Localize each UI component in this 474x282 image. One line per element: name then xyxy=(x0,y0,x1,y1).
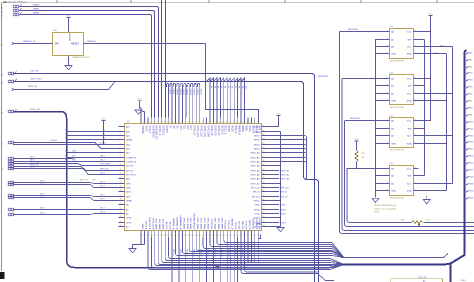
svg-text:6: 6 xyxy=(415,92,416,94)
svg-text:EE3: EE3 xyxy=(469,73,472,75)
labels on slash tap wires xyxy=(210,86,247,89)
svg-text:EE4: EE4 xyxy=(469,80,472,82)
EEPROM nets vertical and bottom-east lines xyxy=(340,32,474,234)
svg-text:NWR1: NWR1 xyxy=(241,126,243,133)
svg-text:TWD: TWD xyxy=(281,204,286,206)
svg-text:91: 91 xyxy=(263,151,265,153)
svg-text:SDA: SDA xyxy=(407,99,412,102)
U9 right pin stubs and numbers xyxy=(262,125,268,227)
svg-text:D11: D11 xyxy=(182,126,184,131)
svg-text:EE11: EE11 xyxy=(469,129,473,131)
svg-text:90: 90 xyxy=(250,122,252,124)
bus B slash taps to U9 top pins xyxy=(207,78,245,118)
svg-text:TDI_BX: TDI_BX xyxy=(234,222,236,230)
svg-text:62: 62 xyxy=(154,122,156,124)
wire net NWE1 xyxy=(19,11,155,118)
svg-text:63: 63 xyxy=(157,122,159,124)
svg-text:VCC: VCC xyxy=(407,78,412,80)
wire EEPROM1 to pin1 xyxy=(342,78,383,80)
node NRESET_IN port xyxy=(12,42,15,45)
svg-text:52: 52 xyxy=(240,235,242,237)
svg-text:NCS3: NCS3 xyxy=(231,126,233,133)
svg-text:GND: GND xyxy=(391,143,396,145)
svg-text:90: 90 xyxy=(263,156,265,158)
svg-text:EE5: EE5 xyxy=(469,87,472,89)
svg-text:GPIO_I2C: GPIO_I2C xyxy=(418,277,428,279)
svg-text:SDA: SDA xyxy=(407,189,412,192)
svg-text:GPIO_23: GPIO_23 xyxy=(220,249,222,257)
svg-text:GND: GND xyxy=(391,53,396,55)
svg-text:EE17: EE17 xyxy=(469,170,473,172)
svg-text:64: 64 xyxy=(160,122,162,124)
svg-text:UP_3: UP_3 xyxy=(100,182,105,184)
svg-text:SPI_CLK: SPI_CLK xyxy=(251,187,260,189)
node GPIO_1016 connector xyxy=(8,80,11,83)
svg-text:29: 29 xyxy=(160,235,162,237)
svg-text:GPIO_CS: GPIO_CS xyxy=(100,169,109,171)
op U10 box xyxy=(53,33,84,56)
svg-text:NRESET: NRESET xyxy=(87,41,97,43)
wire net NRAS xyxy=(19,15,152,118)
svg-text:GPIO_1016: GPIO_1016 xyxy=(30,79,42,81)
svg-text:79: 79 xyxy=(263,203,265,205)
svg-text:65: 65 xyxy=(164,122,166,124)
U9 bottom wires upper east band xyxy=(176,237,345,258)
node COM_B connector xyxy=(8,141,11,144)
svg-text:6C: 6C xyxy=(1,16,4,18)
svg-text:GPIO_A6: GPIO_A6 xyxy=(251,177,261,180)
svg-text:GPIO9: GPIO9 xyxy=(172,89,174,95)
svg-text:TST0_BX: TST0_BX xyxy=(224,220,226,230)
svg-text:U11: U11 xyxy=(390,26,395,28)
svg-text:NRD_A: NRD_A xyxy=(234,126,237,134)
svg-text:40: 40 xyxy=(198,235,200,237)
svg-text:VCC: VCC xyxy=(428,13,433,15)
svg-text:MPF_uB: MPF_uB xyxy=(80,180,88,182)
svg-text:9: 9 xyxy=(120,160,121,162)
svg-text:UP_1: UP_1 xyxy=(100,160,105,162)
svg-text:97: 97 xyxy=(263,125,265,127)
svg-text:GPIO_9: GPIO_9 xyxy=(172,249,174,256)
svg-text:3: 3 xyxy=(66,59,67,61)
svg-text:NOTES: EEPROMS only: NOTES: EEPROMS only xyxy=(374,205,396,207)
svg-text:BOOT0: BOOT0 xyxy=(126,165,134,167)
svg-text:UP_6: UP_6 xyxy=(40,196,45,198)
svg-text:TXD0: TXD0 xyxy=(254,213,260,215)
svg-text:1: 1 xyxy=(387,119,388,121)
resistor R10 xyxy=(355,151,359,162)
svg-text:UP_8: UP_8 xyxy=(40,213,45,215)
svg-text:27: 27 xyxy=(154,235,156,237)
svg-text:D5: D5 xyxy=(227,86,229,88)
svg-text:UP_8: UP_8 xyxy=(100,212,105,214)
svg-text:7: 7 xyxy=(120,151,121,153)
svg-text:EE19: EE19 xyxy=(469,184,473,186)
svg-text:GPIO1_C: GPIO1_C xyxy=(158,126,160,136)
svg-text:SPI_CLK: SPI_CLK xyxy=(281,187,290,189)
svg-text:GND: GND xyxy=(255,131,260,133)
svg-text:53: 53 xyxy=(243,235,245,237)
svg-text:GPFA: GPFA xyxy=(126,199,132,202)
svg-text:MR: MR xyxy=(55,43,59,46)
svg-text:TWCK: TWCK xyxy=(253,200,260,202)
svg-text:GPIO_25: GPIO_25 xyxy=(227,249,229,257)
svg-text:93: 93 xyxy=(263,143,265,145)
svg-text:3: 3 xyxy=(387,134,388,136)
wire bottom second east xyxy=(341,254,448,258)
svg-text:UP_6: UP_6 xyxy=(100,199,105,201)
svg-text:2: 2 xyxy=(387,38,388,40)
svg-text:GPIO_A5: GPIO_A5 xyxy=(251,173,261,176)
svg-text:COM_B: COM_B xyxy=(50,140,57,142)
svg-text:80: 80 xyxy=(216,122,218,124)
svg-text:SPI_DI: SPI_DI xyxy=(281,191,287,193)
U9 right GND chain xyxy=(267,132,281,227)
svg-text:CK7: CK7 xyxy=(72,156,76,158)
svg-text:AVCC: AVCC xyxy=(126,190,132,193)
svg-text:D7: D7 xyxy=(234,86,236,88)
svg-text:VCC: VCC xyxy=(276,113,281,115)
svg-text:54: 54 xyxy=(247,235,249,237)
svg-text:8: 8 xyxy=(415,119,416,121)
power VCC U9 top-left xyxy=(137,100,141,102)
svg-text:D2: D2 xyxy=(217,86,219,88)
op U12 box xyxy=(390,75,414,105)
svg-text:R16: R16 xyxy=(401,220,406,222)
svg-text:GPIO_C6: GPIO_C6 xyxy=(213,126,215,137)
svg-text:33: 33 xyxy=(174,235,176,237)
svg-text:U14: U14 xyxy=(390,163,395,165)
svg-text:23: 23 xyxy=(120,221,122,223)
power VCC R10 xyxy=(354,140,358,142)
svg-text:EE8: EE8 xyxy=(469,108,472,110)
node NWE1 connector xyxy=(13,9,16,12)
svg-text:74: 74 xyxy=(263,225,265,227)
wire NRESET out xyxy=(83,43,205,45)
svg-text:83: 83 xyxy=(263,186,265,188)
left connector group wires xyxy=(8,156,118,175)
svg-text:8: 8 xyxy=(415,77,416,79)
svg-text:EE1: EE1 xyxy=(469,60,472,62)
svg-text:NWE0: NWE0 xyxy=(33,5,40,7)
labels on top pin wires xyxy=(168,89,201,96)
svg-text:86: 86 xyxy=(236,122,238,124)
sheet corner mark xyxy=(0,272,5,279)
svg-text:SOM: SOM xyxy=(374,212,379,214)
svg-text:69: 69 xyxy=(178,122,180,124)
svg-text:GPB: GPB xyxy=(126,183,131,185)
svg-text:56: 56 xyxy=(254,235,256,237)
svg-text:GND: GND xyxy=(391,100,396,102)
svg-text:79: 79 xyxy=(212,122,214,124)
svg-text:GPIO_B6AX: GPIO_B6AX xyxy=(206,218,209,230)
svg-text:GPIO_A4: GPIO_A4 xyxy=(281,169,289,172)
svg-text:GPIO_B5AX: GPIO_B5AX xyxy=(203,218,206,230)
svg-text:2: 2 xyxy=(387,174,388,176)
svg-text:HDSAM_WSU10: HDSAM_WSU10 xyxy=(193,213,196,230)
svg-text:57: 57 xyxy=(257,235,259,237)
svg-text:D6: D6 xyxy=(231,86,233,88)
svg-text:UP_0: UP_0 xyxy=(100,156,105,158)
svg-text:EED1: EED1 xyxy=(254,139,260,141)
svg-text:UP_0: UP_0 xyxy=(30,157,35,159)
svg-text:GPIO2_C: GPIO2_C xyxy=(162,126,164,136)
wire WP chain xyxy=(419,40,426,176)
svg-text:TXD0: TXD0 xyxy=(281,213,286,215)
U14 pins xyxy=(383,167,418,193)
wire loop A xyxy=(13,74,315,282)
ground EEPROM tie xyxy=(372,198,379,202)
svg-text:6C: 6C xyxy=(1,169,4,171)
wire GPIO_26 merge xyxy=(14,82,115,90)
wire net NCAS vertical xyxy=(161,0,163,118)
svg-text:GPIO14: GPIO14 xyxy=(189,89,191,96)
svg-text:LANAMSEL_B: LANAMSEL_B xyxy=(179,216,182,230)
svg-text:DRAM: DRAM xyxy=(126,138,132,141)
svg-text:4: 4 xyxy=(120,138,121,140)
U12 pins xyxy=(383,77,418,103)
svg-text:12: 12 xyxy=(120,173,122,175)
U9 right pin names xyxy=(251,126,261,228)
svg-text:D12: D12 xyxy=(186,126,188,131)
svg-text:28: 28 xyxy=(157,235,159,237)
ground U9 top-left xyxy=(135,110,142,114)
op U9 box xyxy=(125,124,262,231)
svg-text:5: 5 xyxy=(415,52,416,54)
svg-text:70: 70 xyxy=(181,122,183,124)
svg-text:RESET: RESET xyxy=(71,43,80,46)
svg-text:GPIO16: GPIO16 xyxy=(196,89,198,96)
svg-text:87: 87 xyxy=(240,122,242,124)
svg-text:D10: D10 xyxy=(244,86,246,89)
svg-text:TCK_BX: TCK_BX xyxy=(244,221,246,230)
node XOSC connector xyxy=(8,110,11,113)
wires U9 right pins to collector bus xyxy=(267,136,307,181)
svg-text:DS1818: DS1818 xyxy=(68,33,70,42)
svg-text:GPIO_A4: GPIO_A4 xyxy=(251,169,261,172)
svg-text:75: 75 xyxy=(198,122,200,124)
svg-text:7: 7 xyxy=(415,84,416,86)
svg-text:GPIO_15: GPIO_15 xyxy=(193,249,195,257)
svg-text:serial: serial xyxy=(426,220,431,222)
power VCC bottom xyxy=(215,266,219,268)
svg-text:D13: D13 xyxy=(189,126,191,131)
svg-text:GND: GND xyxy=(257,224,262,226)
svg-text:GPIO11: GPIO11 xyxy=(179,89,181,95)
svg-text:51: 51 xyxy=(236,235,238,237)
svg-text:EE18: EE18 xyxy=(469,177,473,179)
power VCC U9 top-right xyxy=(276,115,280,117)
svg-text:A7ALOUT_B: A7ALOUT_B xyxy=(148,217,151,230)
svg-text:GPA: GPA xyxy=(126,186,131,189)
wire net NWE2 vertical xyxy=(165,0,167,118)
svg-text:GPIO_B7BX: GPIO_B7BX xyxy=(213,218,215,230)
svg-text:48: 48 xyxy=(226,235,228,237)
svg-text:34: 34 xyxy=(178,235,180,237)
svg-text:14: 14 xyxy=(120,182,122,184)
svg-text:50: 50 xyxy=(233,235,235,237)
svg-text:U10: U10 xyxy=(53,30,58,32)
U9 bottom pin names xyxy=(141,213,260,230)
wire NRESET route xyxy=(206,44,259,124)
U9 bottom vertical wires xyxy=(172,237,238,282)
svg-text:18: 18 xyxy=(120,199,122,201)
svg-text:11: 11 xyxy=(120,169,122,171)
svg-text:73: 73 xyxy=(191,122,193,124)
svg-text:24LC256 SOM: 24LC256 SOM xyxy=(390,197,404,199)
op U15 box xyxy=(391,279,443,282)
U13 pins xyxy=(383,119,418,146)
svg-text:10K: 10K xyxy=(361,157,365,159)
op U11 box xyxy=(390,29,414,59)
svg-text:6C: 6C xyxy=(1,113,4,115)
svg-text:77: 77 xyxy=(205,122,207,124)
wire EEPROM0 to pin1 xyxy=(340,31,384,33)
svg-text:8: 8 xyxy=(415,167,416,169)
svg-text:UP_2: UP_2 xyxy=(100,173,105,175)
svg-text:VCC: VCC xyxy=(407,120,412,122)
svg-text:RXD0: RXD0 xyxy=(254,209,260,211)
svg-text:JTAGSEL_B: JTAGSEL_B xyxy=(231,218,234,230)
svg-text:GPIO_A3: GPIO_A3 xyxy=(251,164,261,167)
svg-text:24LC256 SOM: 24LC256 SOM xyxy=(390,61,404,63)
svg-text:1C: 1C xyxy=(1,45,4,47)
svg-text:17: 17 xyxy=(120,195,122,197)
svg-text:SDA: SDA xyxy=(407,142,412,145)
svg-text:76: 76 xyxy=(202,122,204,124)
svg-text:HDD1: HDD1 xyxy=(144,126,146,133)
svg-text:60: 60 xyxy=(147,122,149,124)
svg-text:84: 84 xyxy=(229,122,231,124)
svg-text:RXD0: RXD0 xyxy=(281,209,286,211)
svg-text:TWD: TWD xyxy=(255,204,260,206)
svg-text:30: 30 xyxy=(164,235,166,237)
svg-text:91: 91 xyxy=(254,122,256,124)
svg-text:WP: WP xyxy=(408,175,412,177)
node OSC_IN connector xyxy=(8,72,11,75)
wire loop B xyxy=(13,82,319,282)
svg-text:GPIO_C7: GPIO_C7 xyxy=(217,126,219,137)
svg-text:VCC: VCC xyxy=(137,99,142,101)
svg-text:GPIO_B8BX: GPIO_B8BX xyxy=(217,218,219,230)
svg-text:6C: 6C xyxy=(1,12,4,14)
svg-text:81: 81 xyxy=(219,122,221,124)
svg-text:95: 95 xyxy=(263,134,265,136)
svg-text:6: 6 xyxy=(415,182,416,184)
op U13 box xyxy=(390,118,414,148)
svg-text:88: 88 xyxy=(243,122,245,124)
svg-text:76: 76 xyxy=(263,216,265,218)
wire bottom-right corner xyxy=(258,235,260,239)
svg-text:UP_7: UP_7 xyxy=(100,208,105,210)
svg-text:D3: D3 xyxy=(220,86,222,88)
svg-text:COM_B: COM_B xyxy=(99,142,106,144)
svg-text:VDD: VDD xyxy=(126,144,131,146)
svg-text:VDD_A: VDD_A xyxy=(148,126,151,134)
svg-text:10: 10 xyxy=(120,164,122,166)
svg-text:A11_LANE: A11_LANE xyxy=(158,219,161,230)
svg-text:EE21: EE21 xyxy=(469,198,473,200)
svg-text:TDO_BX: TDO_BX xyxy=(238,221,240,230)
svg-text:59: 59 xyxy=(143,122,145,124)
svg-text:1: 1 xyxy=(387,30,388,32)
svg-text:6C: 6C xyxy=(1,75,4,77)
ground U9 right xyxy=(277,228,284,232)
svg-text:EE7: EE7 xyxy=(469,101,472,103)
svg-text:GPIO_B1AX: GPIO_B1AX xyxy=(186,218,189,230)
svg-text:GPIO_B9BX: GPIO_B9BX xyxy=(220,218,222,230)
wire COM_A xyxy=(13,145,119,149)
svg-text:OSC_IN: OSC_IN xyxy=(30,71,39,73)
svg-text:EED2: EED2 xyxy=(254,144,260,146)
svg-text:GPIO_A0: GPIO_A0 xyxy=(251,151,261,154)
svg-text:2: 2 xyxy=(120,130,121,132)
svg-text:ERASE_BX: ERASE_BX xyxy=(251,218,254,230)
svg-text:GPIO_A5: GPIO_A5 xyxy=(281,173,289,176)
svg-text:EED0: EED0 xyxy=(254,135,260,137)
svg-text:GPIO3: GPIO3 xyxy=(165,126,167,134)
svg-text:5: 5 xyxy=(120,143,121,145)
svg-text:TXD1: TXD1 xyxy=(281,222,286,224)
svg-text:GPIO_26: GPIO_26 xyxy=(28,86,38,88)
wire bottom thick east xyxy=(341,264,451,265)
svg-text:77: 77 xyxy=(263,212,265,214)
svg-text:D8: D8 xyxy=(237,86,239,88)
svg-text:100: 100 xyxy=(92,180,95,182)
svg-text:3: 3 xyxy=(387,182,388,184)
svg-text:TST1_BX: TST1_BX xyxy=(227,220,229,230)
svg-text:GPIO_C2A: GPIO_C2A xyxy=(200,126,203,138)
svg-text:24LC256 SOM: 24LC256 SOM xyxy=(390,150,404,152)
svg-text:GPIO_B3AX: GPIO_B3AX xyxy=(196,218,199,230)
ground U10 stem xyxy=(68,56,70,66)
svg-text:SPI_DI: SPI_DI xyxy=(253,191,260,193)
svg-text:82: 82 xyxy=(263,190,265,192)
svg-text:GPIO_A7: GPIO_A7 xyxy=(251,182,261,185)
svg-text:NCS2: NCS2 xyxy=(227,126,229,133)
left connector pair wires xyxy=(8,181,118,216)
svg-text:58: 58 xyxy=(140,122,142,124)
svg-text:GND: GND xyxy=(391,190,396,192)
U9 bottom short wires xyxy=(248,237,258,262)
U9 bottom wires lower east band xyxy=(148,237,344,270)
svg-text:89: 89 xyxy=(247,122,249,124)
svg-text:5: 5 xyxy=(415,99,416,101)
svg-text:EE20: EE20 xyxy=(469,191,473,193)
svg-text:NBS1: NBS1 xyxy=(244,126,246,133)
svg-text:49: 49 xyxy=(229,235,231,237)
svg-text:address 11 is unavailable: address 11 is unavailable xyxy=(374,208,397,210)
svg-text:2: 2 xyxy=(387,84,388,86)
svg-text:GPIO_17: GPIO_17 xyxy=(199,249,201,257)
svg-text:VCC: VCC xyxy=(66,15,71,17)
svg-text:5: 5 xyxy=(415,142,416,144)
svg-text:GPD: GPD xyxy=(126,196,131,198)
svg-text:COMPT_A: COMPT_A xyxy=(126,160,137,163)
svg-text:NWE1: NWE1 xyxy=(33,9,40,11)
svg-text:GPIO13: GPIO13 xyxy=(186,89,188,96)
svg-text:GPIO_11: GPIO_11 xyxy=(179,249,181,256)
U9 left pin stubs and numbers xyxy=(119,125,125,227)
svg-text:88: 88 xyxy=(263,164,265,166)
svg-text:38: 38 xyxy=(191,235,193,237)
svg-text:GPIO_29: GPIO_29 xyxy=(241,249,243,257)
svg-text:D1: D1 xyxy=(213,86,215,88)
svg-text:NCS0_A: NCS0_A xyxy=(220,126,223,135)
svg-text:92: 92 xyxy=(263,147,265,149)
resistor R16 xyxy=(412,221,424,224)
svg-text:35: 35 xyxy=(181,235,183,237)
